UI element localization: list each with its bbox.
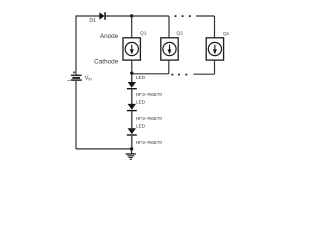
current source Q1 <box>123 38 140 60</box>
battery Vin <box>71 75 82 81</box>
LED D3 (second LED) <box>127 104 137 111</box>
wire: Q1 drop from top rail <box>131 16 133 38</box>
wire: Q2 drop from top rail corner <box>168 16 170 38</box>
wire: LED2 to LED3 <box>131 111 133 128</box>
current source Qx <box>206 38 223 60</box>
current source Q2 <box>161 38 178 60</box>
node B (junction dot at bus/LED chain) <box>130 72 133 75</box>
svg-text:Qx: Qx <box>223 31 230 37</box>
wire: top rail from left corner to diode anode <box>76 15 100 17</box>
node A (junction dot on top rail) <box>130 14 133 17</box>
wire: bottom bus node B to Q2 bottom corner <box>132 73 169 75</box>
left rail: top corner down to battery positive <box>75 15 77 74</box>
node C (junction dot above ground) <box>130 147 133 150</box>
wire: bottom return from left corner to node C <box>76 148 132 150</box>
wire: node A to Q2 top corner <box>132 15 169 17</box>
svg-text:HF3–R6570: HF3–R6570 <box>136 92 163 98</box>
top rail ellipsis dots <box>175 15 191 17</box>
svg-text:LED: LED <box>136 75 146 81</box>
wire: Qx output drop to bus corner <box>214 60 216 74</box>
wire: node B down to LED1 <box>131 74 133 82</box>
svg-text:Q1: Q1 <box>140 31 147 37</box>
svg-text:D1: D1 <box>89 18 96 24</box>
left rail: battery negative down to bottom corner <box>75 81 77 149</box>
svg-text:Vin: Vin <box>85 76 93 82</box>
wire: node C to ground <box>131 149 133 154</box>
svg-text:Anode: Anode <box>100 33 119 40</box>
wire: bottom bus right segment to Qx corner <box>194 73 215 75</box>
svg-text:HF3–R6570: HF3–R6570 <box>136 116 163 122</box>
wire: Qx drop from top rail corner <box>214 16 216 38</box>
diode D1 <box>99 12 106 20</box>
svg-text:LED: LED <box>136 123 146 129</box>
wire: diode cathode to node A <box>106 15 132 17</box>
svg-text:Q2: Q2 <box>176 31 183 37</box>
minus sign at battery <box>68 80 70 82</box>
wire: LED1 to LED2 <box>131 89 133 104</box>
LED D2 (first LED) <box>127 82 137 89</box>
wire: top rail right segment to Qx <box>196 15 215 17</box>
wire: LED3 to node C <box>131 136 133 149</box>
svg-text:HF3–R6570: HF3–R6570 <box>136 140 163 146</box>
svg-text:LED: LED <box>136 99 146 105</box>
ground <box>126 153 136 159</box>
bottom bus ellipsis dots <box>171 74 187 76</box>
wire: Q2 output drop to bus corner <box>168 60 170 74</box>
LED D4 (third LED) <box>127 128 137 135</box>
plus sign at battery <box>73 71 75 73</box>
wire: Q1 output to node B <box>131 60 133 74</box>
svg-text:Cathode: Cathode <box>94 58 119 65</box>
